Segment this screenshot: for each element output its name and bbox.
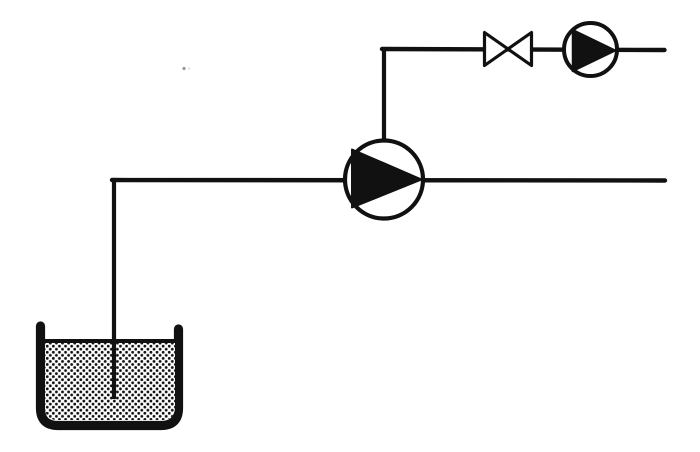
pump P2	[564, 23, 617, 76]
tank	[41, 326, 179, 426]
suction pipe (vertical from tank to main pipe)	[112, 180, 116, 400]
main suction/discharge pipe (horizontal)	[112, 178, 665, 183]
liquid surface	[44, 339, 176, 343]
suction pipe tip inside liquid	[112, 342, 116, 399]
top discharge pipe (horizontal)	[382, 49, 665, 50]
branch pipe (vertical riser from pump P1 to top line)	[382, 49, 386, 142]
valve V1	[485, 33, 532, 66]
pump P1	[345, 141, 423, 219]
liquid stipple	[45, 343, 175, 420]
scan speck	[182, 67, 190, 70]
